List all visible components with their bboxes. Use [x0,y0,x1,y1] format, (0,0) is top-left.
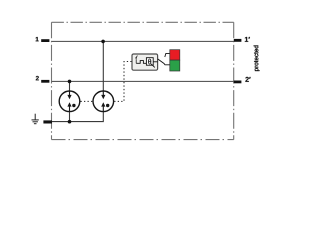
theta label [148,59,151,64]
wire stub F1 top to line2 [69,81,71,91]
ground terminal block [43,120,52,123]
dotted link arrester F2 to monitoring [114,62,131,102]
wire line1 [52,40,234,42]
wire ground bus [51,112,103,122]
terminal 2' block [234,81,242,84]
indicator hook wire to red [165,53,170,57]
enclosure boundary (dash-dot) [52,22,234,139]
ground symbol [32,114,39,124]
thermal disconnector box with theta [146,58,153,65]
node junction on ground bus at x=69.5 [68,120,72,124]
impulse arrow inside U1 [136,56,137,58]
node junction on line2 at x=69.5 [68,80,72,84]
terminal 1' label [245,37,250,42]
connector theta box to U1 edge [153,61,157,63]
disconnector actuator diagonal [151,64,155,68]
monitoring unit U1 box [132,54,158,70]
wire line2 [52,80,234,82]
terminal 1 block [41,39,49,42]
terminal 2' label [245,77,250,82]
node junction on line1 at x=103 [101,40,105,44]
terminal 2 label [36,76,39,80]
surge arrester F1 (gas discharge tube) [59,91,80,112]
wire stub F1 bottom to bus [69,112,71,122]
impulse waveform inside U1 [136,61,146,64]
terminal 1 label [36,37,39,41]
terminal 1' block [234,39,242,42]
protected label [254,46,260,71]
wire stub F2 from line1 [102,41,104,91]
surge arrester F2 (gas discharge tube) [93,91,114,112]
status indicator green flag [170,60,180,71]
terminal 2 block [41,80,49,83]
indicator lever wire [158,59,170,65]
status indicator red flag [170,50,180,60]
dotted link between arresters [81,100,93,102]
